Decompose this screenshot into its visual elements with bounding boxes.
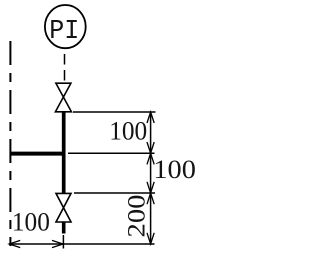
centerline (dash-dot)	[9, 41, 11, 246]
pipe vertical	[62, 112, 66, 193]
arrowhead right at bottom dimension	[52, 240, 63, 247]
valve V2 (bowtie)	[56, 193, 71, 222]
extension line below valve V2	[62, 235, 64, 249]
arrowhead down at bottom of dim 2	[147, 182, 154, 193]
extension line b (pipe level)	[68, 152, 155, 154]
svg-text:PI: PI	[49, 17, 79, 47]
svg-text:100: 100	[109, 116, 147, 145]
pipe horizontal	[10, 152, 66, 156]
svg-text:100: 100	[12, 207, 50, 236]
instrument signal line (dashed)	[64, 54, 66, 82]
svg-text:200: 200	[124, 195, 151, 238]
pipe stub below V2	[62, 222, 66, 234]
extension line a (valve V1 bottom)	[73, 111, 156, 113]
arrowhead down at bottom of dim 1	[147, 142, 154, 153]
arrowhead down at bottom of dim 3	[147, 233, 154, 244]
arrowhead up at top of dim 3	[147, 193, 154, 204]
arrowhead left at bottom dimension	[9, 240, 20, 247]
arrowhead up at top of dim 1	[147, 112, 154, 123]
bottom dimension line	[9, 243, 155, 245]
instrument bubble PI	[45, 5, 86, 48]
valve V1 (bowtie)	[55, 83, 71, 112]
extension line c (valve V2 top)	[74, 192, 155, 194]
arrowhead up at top of dim 2	[147, 153, 154, 164]
svg-text:100: 100	[153, 155, 196, 184]
dimension line vertical	[150, 112, 152, 244]
